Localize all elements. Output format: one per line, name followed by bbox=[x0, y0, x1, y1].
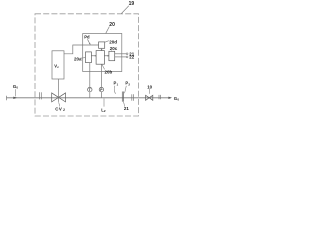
label 20d bbox=[105, 40, 117, 45]
label 20c upper bbox=[110, 46, 118, 52]
svg-text:0: 0 bbox=[177, 98, 179, 102]
arrow 20b to 20c bbox=[104, 55, 109, 57]
svg-text:20b: 20b bbox=[105, 70, 113, 75]
tank box Vc bbox=[52, 51, 64, 79]
svg-text:20c: 20c bbox=[110, 46, 118, 51]
svg-text:10: 10 bbox=[147, 84, 152, 89]
flow controller box 20 bbox=[83, 34, 122, 72]
svg-text:19: 19 bbox=[129, 1, 135, 7]
svg-text:0: 0 bbox=[16, 86, 18, 90]
pipe start tick bbox=[6, 96, 8, 101]
box 20b bbox=[96, 51, 104, 65]
svg-text:22: 22 bbox=[129, 55, 134, 60]
label 21 lower bbox=[123, 102, 129, 111]
box 20c bbox=[109, 51, 115, 60]
coupling ticks outlet bbox=[159, 95, 160, 99]
signal line Vc to 20d bbox=[64, 45, 98, 54]
svg-text:Pd: Pd bbox=[84, 34, 90, 39]
svg-text:2: 2 bbox=[104, 109, 106, 113]
label P2 bbox=[125, 81, 131, 94]
label 20 bbox=[106, 22, 115, 34]
pressure sensor P bbox=[99, 64, 103, 98]
box 20a bbox=[86, 52, 92, 63]
label 10 bbox=[147, 84, 152, 93]
svg-text:2: 2 bbox=[128, 82, 130, 86]
label G0 outlet bbox=[174, 96, 180, 102]
pipe main line bbox=[7, 97, 171, 99]
label G0 inlet bbox=[13, 84, 19, 99]
outlet valve 10 bbox=[146, 95, 153, 100]
signal line 21 bbox=[115, 51, 135, 56]
label L2 bbox=[101, 99, 106, 113]
enclosure box 19 (dashed) bbox=[35, 14, 139, 116]
arrow 20a to 20b bbox=[91, 55, 96, 57]
svg-text:CV: CV bbox=[55, 107, 62, 112]
label 20b bbox=[102, 64, 113, 74]
label 20a bbox=[74, 56, 85, 61]
coupling ticks left bbox=[39, 92, 41, 99]
signal line 22 bbox=[115, 55, 135, 60]
svg-text:c: c bbox=[57, 65, 59, 69]
svg-text:20d: 20d bbox=[109, 40, 117, 45]
label Pd bbox=[84, 34, 90, 45]
svg-text:20: 20 bbox=[109, 22, 115, 28]
temperature sensor T bbox=[88, 63, 92, 98]
label CV2 bbox=[55, 107, 65, 113]
box 20d bbox=[99, 42, 105, 48]
label 19 bbox=[121, 1, 134, 14]
svg-text:21: 21 bbox=[124, 106, 129, 111]
svg-text:2: 2 bbox=[63, 108, 65, 112]
outlet arrow bbox=[168, 97, 172, 99]
arrow 20d to 20b bbox=[101, 49, 103, 51]
svg-text:1: 1 bbox=[117, 82, 119, 86]
control valve CV2 bbox=[52, 79, 66, 106]
label P1 bbox=[114, 81, 119, 94]
svg-text:20a: 20a bbox=[74, 56, 82, 61]
orifice bars bbox=[122, 92, 123, 102]
coupling ticks right bbox=[132, 94, 134, 100]
